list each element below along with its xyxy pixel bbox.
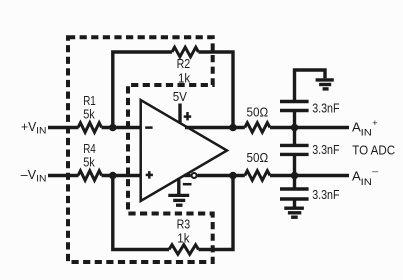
node negative output junction — [229, 172, 237, 180]
wire 50ohm to AIN- — [270, 174, 349, 177]
node inverting input junction — [109, 124, 117, 132]
svg-text:5k: 5k — [83, 154, 95, 169]
svg-text:3.3nF: 3.3nF — [312, 142, 339, 157]
output inversion bubble — [192, 173, 197, 178]
capacitor C3 bottom 3.3nF — [293, 176, 296, 190]
svg-text:IN: IN — [36, 126, 46, 137]
minus output label — [183, 183, 192, 186]
wire bottom feedback vertical+horizontal — [113, 176, 169, 250]
wire top feedback vertical+horizontal — [113, 52, 172, 128]
svg-text:3.3nF: 3.3nF — [312, 101, 339, 116]
resistor R4 — [78, 171, 102, 181]
svg-text:IN: IN — [361, 177, 372, 188]
svg-text:5V: 5V — [173, 89, 187, 104]
resistor 50ohm top — [245, 123, 270, 133]
svg-text:1k: 1k — [178, 70, 191, 85]
wire R2 to top output node — [198, 52, 233, 128]
svg-text:5k: 5k — [83, 107, 95, 122]
wire R3 to bottom output node — [199, 176, 234, 250]
capacitor C1 top 3.3nF — [293, 111, 296, 128]
node positive output junction — [229, 124, 237, 132]
wire R4 to amp — [102, 174, 141, 177]
resistor 50ohm bottom — [245, 171, 270, 181]
ground (top right) — [316, 78, 334, 81]
wire -VIN input line — [48, 174, 79, 177]
plus input label — [146, 174, 153, 177]
amp ground stem — [177, 178, 180, 194]
svg-text:+V: +V — [21, 119, 37, 134]
svg-text:3.3nF: 3.3nF — [312, 187, 339, 202]
plus output label — [184, 115, 192, 118]
node AIN- filter junction — [291, 172, 299, 180]
resistor R1 — [78, 123, 102, 133]
wire R1 to amp — [102, 126, 141, 129]
wire +VIN input line — [48, 126, 79, 129]
svg-text:1k: 1k — [177, 230, 190, 245]
ground (amp) — [168, 194, 189, 197]
wire bottom output line — [184, 174, 191, 177]
svg-text:IN: IN — [36, 174, 46, 185]
resistor R3 — [169, 245, 199, 255]
svg-text:50Ω: 50Ω — [247, 105, 269, 120]
svg-text:R2: R2 — [177, 56, 191, 71]
op-amp fully differential triangle — [141, 100, 227, 201]
minus input label — [145, 126, 152, 129]
node noninverting input junction — [109, 172, 117, 180]
wire C1 to ground — [295, 70, 326, 102]
svg-text:IN: IN — [361, 128, 372, 139]
svg-text:–V: –V — [21, 167, 37, 182]
wire 50ohm to AIN+ — [270, 126, 349, 129]
svg-text:–: – — [372, 166, 379, 177]
wire top output line — [185, 126, 245, 129]
svg-text:50Ω: 50Ω — [247, 150, 269, 165]
svg-text:+: + — [372, 118, 378, 129]
wire 5V supply — [178, 104, 181, 124]
node AIN+ filter junction — [291, 124, 299, 132]
resistor R2 — [172, 47, 198, 57]
ground (bottom right) — [284, 206, 304, 209]
svg-text:TO ADC: TO ADC — [352, 143, 395, 158]
dashed resistor-network package outline — [68, 37, 213, 262]
capacitor C2 middle 3.3nF — [293, 128, 296, 146]
